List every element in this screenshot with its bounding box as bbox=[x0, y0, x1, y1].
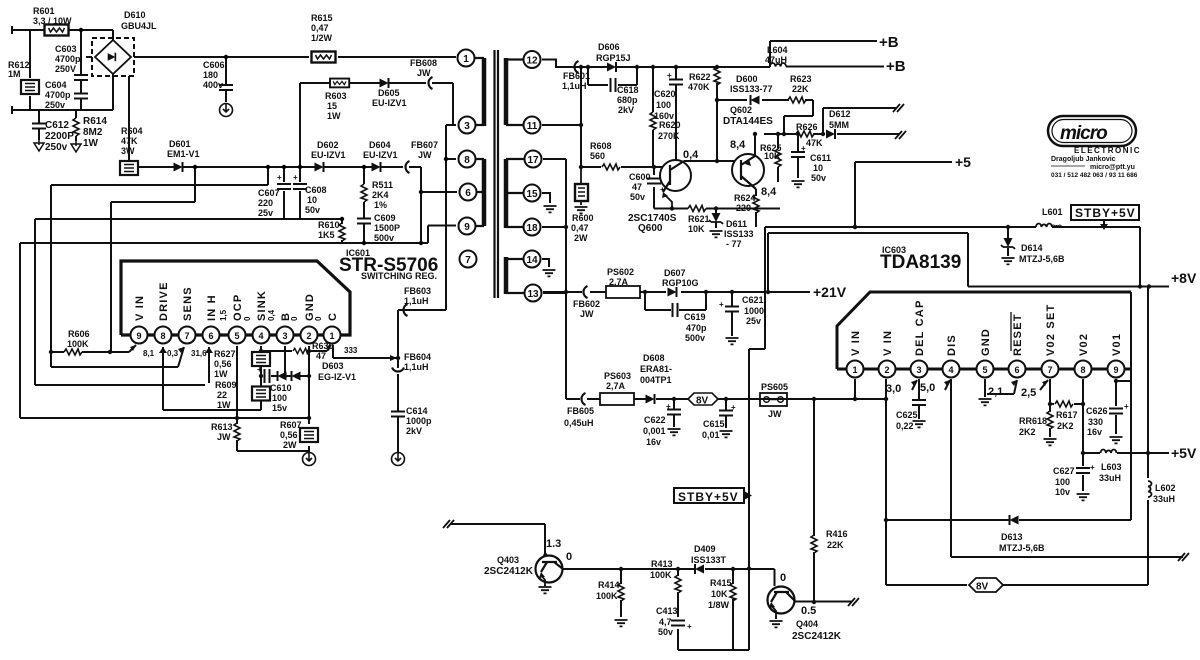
svg-text:1: 1 bbox=[329, 331, 334, 341]
svg-text:V01: V01 bbox=[1111, 333, 1123, 356]
svg-text:8,4: 8,4 bbox=[730, 139, 746, 151]
svg-text:2,7A: 2,7A bbox=[606, 381, 626, 391]
svg-text:1,1uH: 1,1uH bbox=[404, 362, 429, 372]
svg-text:R601: R601 bbox=[33, 6, 55, 16]
svg-text:D606: D606 bbox=[598, 42, 620, 52]
svg-text:500v: 500v bbox=[374, 233, 394, 243]
svg-text:0,4: 0,4 bbox=[267, 309, 276, 321]
svg-text:C607: C607 bbox=[258, 188, 280, 198]
svg-text:3: 3 bbox=[282, 331, 287, 341]
svg-text:10K: 10K bbox=[688, 224, 705, 234]
svg-text:R603: R603 bbox=[325, 91, 347, 101]
svg-text:C606: C606 bbox=[203, 60, 225, 70]
svg-text:DIS: DIS bbox=[946, 334, 958, 356]
svg-text:R627: R627 bbox=[214, 349, 236, 359]
svg-text:8,1: 8,1 bbox=[143, 349, 155, 358]
svg-text:GND: GND bbox=[980, 328, 992, 356]
svg-text:MTZJ-5,6B: MTZJ-5,6B bbox=[1019, 254, 1065, 264]
svg-text:100: 100 bbox=[272, 393, 287, 403]
svg-text:R622: R622 bbox=[689, 72, 711, 82]
svg-text:9: 9 bbox=[464, 222, 470, 233]
svg-text:D604: D604 bbox=[369, 140, 391, 150]
svg-text:+B: +B bbox=[886, 58, 906, 75]
svg-text:FB607: FB607 bbox=[411, 140, 438, 150]
svg-text:1%: 1% bbox=[374, 200, 387, 210]
svg-text:EU-IZV1: EU-IZV1 bbox=[311, 150, 346, 160]
svg-text:10: 10 bbox=[307, 195, 317, 205]
svg-text:16v: 16v bbox=[1087, 427, 1102, 437]
svg-text:1,1uH: 1,1uH bbox=[562, 81, 587, 91]
svg-text:D607: D607 bbox=[664, 268, 686, 278]
svg-text:ERA81-: ERA81- bbox=[640, 364, 672, 374]
svg-text:5: 5 bbox=[234, 331, 239, 341]
svg-text:+: + bbox=[666, 402, 671, 411]
svg-text:470K: 470K bbox=[688, 82, 710, 92]
svg-text:DEL CAP: DEL CAP bbox=[914, 300, 926, 356]
svg-text:4,7: 4,7 bbox=[659, 617, 672, 627]
svg-text:Q602: Q602 bbox=[730, 105, 752, 115]
svg-text:8,4: 8,4 bbox=[761, 186, 777, 198]
svg-text:15: 15 bbox=[526, 189, 538, 200]
svg-text:22: 22 bbox=[217, 390, 227, 400]
svg-text:D602: D602 bbox=[317, 140, 339, 150]
svg-text:C600: C600 bbox=[629, 172, 651, 182]
svg-text:EM1-V1: EM1-V1 bbox=[167, 149, 200, 159]
svg-text:L601: L601 bbox=[1042, 207, 1063, 217]
svg-text:250V: 250V bbox=[55, 64, 76, 74]
svg-text:R617: R617 bbox=[1056, 410, 1078, 420]
svg-text:C413: C413 bbox=[656, 606, 678, 616]
svg-text:3: 3 bbox=[916, 365, 921, 375]
svg-text:16v: 16v bbox=[646, 437, 661, 447]
svg-text:10v: 10v bbox=[1055, 487, 1070, 497]
svg-text:IN H: IN H bbox=[206, 294, 218, 321]
svg-text:C603: C603 bbox=[55, 44, 77, 54]
svg-text:L603: L603 bbox=[1101, 462, 1122, 472]
svg-text:C614: C614 bbox=[406, 406, 428, 416]
svg-text:C609: C609 bbox=[374, 213, 396, 223]
svg-text:V02 SET: V02 SET bbox=[1045, 304, 1057, 356]
svg-text:100K: 100K bbox=[67, 339, 89, 349]
svg-text:SWITCHING REG.: SWITCHING REG. bbox=[361, 271, 437, 281]
svg-text:+5V: +5V bbox=[1171, 445, 1197, 461]
svg-text:500v: 500v bbox=[685, 333, 705, 343]
svg-text:2K4: 2K4 bbox=[372, 190, 389, 200]
svg-text:1: 1 bbox=[852, 365, 857, 375]
svg-text:R511: R511 bbox=[372, 180, 393, 190]
svg-text:D611: D611 bbox=[726, 219, 747, 229]
svg-text:18: 18 bbox=[526, 223, 538, 234]
svg-text:1/2W: 1/2W bbox=[311, 33, 333, 43]
svg-text:0: 0 bbox=[243, 316, 252, 321]
svg-text:1W: 1W bbox=[327, 111, 341, 121]
svg-text:8V: 8V bbox=[696, 396, 709, 407]
svg-text:Dragoljub Jankovic: Dragoljub Jankovic bbox=[1051, 156, 1116, 163]
svg-text:11: 11 bbox=[527, 121, 538, 132]
svg-text:ELECTRONIC: ELECTRONIC bbox=[1074, 146, 1141, 155]
svg-text:2kV: 2kV bbox=[406, 426, 422, 436]
svg-text:R614: R614 bbox=[83, 116, 107, 127]
svg-text:C608: C608 bbox=[305, 185, 327, 195]
svg-text:MTZJ-5,6B: MTZJ-5,6B bbox=[999, 543, 1045, 553]
svg-text:ISS133-77: ISS133-77 bbox=[730, 84, 773, 94]
svg-text:R620: R620 bbox=[659, 120, 681, 130]
svg-text:L604: L604 bbox=[767, 45, 788, 55]
svg-text:V IN: V IN bbox=[882, 330, 894, 356]
svg-text:C621: C621 bbox=[742, 295, 764, 305]
svg-text:1000p: 1000p bbox=[406, 416, 432, 426]
svg-text:10K: 10K bbox=[764, 151, 781, 161]
svg-text:JW: JW bbox=[417, 68, 431, 78]
svg-text:50v: 50v bbox=[630, 192, 645, 202]
svg-text:D601: D601 bbox=[169, 139, 191, 149]
svg-text:R608: R608 bbox=[590, 141, 612, 151]
svg-text:R610: R610 bbox=[318, 220, 340, 230]
svg-text:+: + bbox=[731, 403, 736, 412]
svg-text:2: 2 bbox=[884, 365, 889, 375]
svg-text:D612: D612 bbox=[829, 109, 851, 119]
svg-text:D600: D600 bbox=[736, 74, 758, 84]
svg-text:4700p: 4700p bbox=[45, 90, 71, 100]
svg-text:+: + bbox=[719, 300, 724, 309]
svg-text:12: 12 bbox=[526, 56, 538, 67]
svg-text:Q403: Q403 bbox=[497, 555, 519, 565]
svg-text:100: 100 bbox=[656, 100, 671, 110]
svg-text:R613: R613 bbox=[211, 422, 233, 432]
svg-text:JW: JW bbox=[768, 409, 782, 419]
svg-text:5,0: 5,0 bbox=[920, 382, 935, 394]
svg-text:STBY+5V: STBY+5V bbox=[1075, 206, 1136, 220]
svg-text:D605: D605 bbox=[378, 88, 400, 98]
svg-text:C627: C627 bbox=[1053, 466, 1075, 476]
svg-text:D608: D608 bbox=[643, 353, 665, 363]
svg-text:270K: 270K bbox=[658, 131, 680, 141]
svg-text:micro@ptt.yu: micro@ptt.yu bbox=[1090, 164, 1135, 171]
svg-text:micro: micro bbox=[1060, 123, 1107, 144]
svg-text:C626: C626 bbox=[1086, 406, 1108, 416]
svg-text:333: 333 bbox=[344, 346, 358, 355]
svg-text:22K: 22K bbox=[827, 540, 844, 550]
svg-text:C615: C615 bbox=[703, 419, 725, 429]
svg-text:14: 14 bbox=[526, 255, 538, 266]
svg-text:FB603: FB603 bbox=[404, 286, 431, 296]
svg-text:0,001: 0,001 bbox=[643, 426, 666, 436]
svg-text:JW: JW bbox=[580, 309, 594, 319]
svg-text:4: 4 bbox=[948, 365, 953, 375]
svg-text:+: + bbox=[1124, 402, 1129, 411]
svg-text:+: + bbox=[687, 622, 692, 631]
svg-text:47: 47 bbox=[316, 351, 326, 361]
svg-text:0: 0 bbox=[290, 316, 299, 321]
svg-text:6: 6 bbox=[465, 188, 471, 199]
svg-text:7: 7 bbox=[184, 331, 189, 341]
svg-text:D409: D409 bbox=[694, 544, 716, 554]
svg-text:100K: 100K bbox=[650, 570, 672, 580]
svg-text:220: 220 bbox=[258, 198, 273, 208]
svg-text:+: + bbox=[277, 173, 282, 182]
svg-text:V02: V02 bbox=[1078, 333, 1090, 356]
svg-text:C610: C610 bbox=[270, 383, 292, 393]
svg-text:25v: 25v bbox=[746, 316, 761, 326]
svg-text:R623: R623 bbox=[790, 74, 812, 84]
svg-text:SENS: SENS bbox=[182, 286, 194, 321]
svg-text:0,22: 0,22 bbox=[896, 421, 914, 431]
svg-text:9: 9 bbox=[136, 331, 141, 341]
svg-text:6: 6 bbox=[208, 331, 213, 341]
svg-text:L602: L602 bbox=[1155, 483, 1176, 493]
svg-text:2kV: 2kV bbox=[618, 105, 634, 115]
svg-text:R600: R600 bbox=[572, 213, 594, 223]
svg-text:0,47: 0,47 bbox=[571, 223, 589, 233]
svg-text:D610: D610 bbox=[124, 10, 146, 20]
svg-text:22K: 22K bbox=[792, 84, 809, 94]
svg-text:R621: R621 bbox=[688, 214, 710, 224]
svg-text:47: 47 bbox=[632, 182, 642, 192]
svg-text:33uH: 33uH bbox=[1153, 494, 1175, 504]
svg-text:470p: 470p bbox=[686, 323, 707, 333]
svg-text:1,5: 1,5 bbox=[219, 309, 228, 321]
svg-text:2: 2 bbox=[306, 331, 311, 341]
svg-text:3,0: 3,0 bbox=[886, 383, 901, 395]
svg-text:0,56: 0,56 bbox=[280, 430, 298, 440]
svg-text:Q404: Q404 bbox=[796, 619, 818, 629]
svg-text:100K: 100K bbox=[596, 591, 618, 601]
svg-text:+: + bbox=[257, 365, 262, 374]
svg-text:47uH: 47uH bbox=[765, 55, 787, 65]
svg-text:+21V: +21V bbox=[813, 284, 847, 300]
svg-text:R630: R630 bbox=[312, 341, 334, 351]
svg-text:2SC2412K: 2SC2412K bbox=[792, 631, 842, 642]
svg-text:2W: 2W bbox=[574, 233, 588, 243]
svg-text:+5: +5 bbox=[955, 154, 971, 170]
svg-text:3: 3 bbox=[464, 121, 470, 132]
svg-text:5MM: 5MM bbox=[829, 120, 849, 130]
svg-text:PS603: PS603 bbox=[604, 371, 631, 381]
svg-text:0: 0 bbox=[780, 572, 786, 584]
svg-text:1: 1 bbox=[463, 54, 469, 65]
svg-text:1W: 1W bbox=[83, 138, 99, 149]
svg-text:R615: R615 bbox=[311, 13, 333, 23]
svg-text:2,7A: 2,7A bbox=[609, 277, 629, 287]
svg-text:C: C bbox=[327, 312, 339, 321]
svg-text:9: 9 bbox=[1113, 365, 1118, 375]
svg-text:15v: 15v bbox=[272, 403, 287, 413]
svg-text:STBY+5V: STBY+5V bbox=[678, 490, 739, 504]
svg-text:D613: D613 bbox=[1001, 532, 1023, 542]
svg-text:1500P: 1500P bbox=[374, 223, 400, 233]
svg-text:2K2: 2K2 bbox=[1019, 427, 1036, 437]
svg-text:8M2: 8M2 bbox=[83, 127, 103, 138]
svg-text:ISS133T: ISS133T bbox=[691, 555, 727, 565]
svg-text:1000: 1000 bbox=[744, 306, 764, 316]
svg-text:4700p: 4700p bbox=[55, 54, 81, 64]
svg-text:7: 7 bbox=[1047, 365, 1052, 375]
svg-text:1K5: 1K5 bbox=[318, 230, 335, 240]
svg-text:1,1uH: 1,1uH bbox=[404, 296, 429, 306]
svg-text:2200P: 2200P bbox=[45, 131, 74, 142]
svg-text:0,01: 0,01 bbox=[702, 430, 720, 440]
svg-text:0,4: 0,4 bbox=[683, 149, 699, 161]
svg-text:15: 15 bbox=[327, 101, 337, 111]
svg-text:R606: R606 bbox=[68, 329, 90, 339]
svg-text:RGP15J: RGP15J bbox=[596, 53, 631, 63]
svg-text:C622: C622 bbox=[644, 415, 666, 425]
svg-text:C619: C619 bbox=[684, 312, 706, 322]
svg-text:+B: +B bbox=[879, 34, 899, 51]
svg-text:C611: C611 bbox=[810, 153, 831, 163]
svg-text:3W: 3W bbox=[121, 146, 135, 156]
svg-text:FB605: FB605 bbox=[567, 406, 594, 416]
svg-text:EG-IZ-V1: EG-IZ-V1 bbox=[318, 372, 356, 382]
svg-text:FB608: FB608 bbox=[410, 58, 437, 68]
svg-text:ISS133: ISS133 bbox=[724, 229, 754, 239]
svg-text:031 / 512 482 063 / 93 11 6: 031 / 512 482 063 / 93 11 686 bbox=[1051, 172, 1138, 179]
svg-text:JW: JW bbox=[418, 150, 432, 160]
svg-text:330: 330 bbox=[1088, 417, 1103, 427]
svg-text:JW: JW bbox=[217, 432, 231, 442]
svg-text:5: 5 bbox=[982, 365, 987, 375]
svg-text:6: 6 bbox=[1014, 365, 1019, 375]
svg-text:31,6: 31,6 bbox=[191, 349, 207, 358]
svg-text:2K2: 2K2 bbox=[1057, 421, 1074, 431]
svg-text:R604: R604 bbox=[121, 126, 143, 136]
svg-text:R413: R413 bbox=[651, 559, 673, 569]
svg-text:0,56: 0,56 bbox=[214, 359, 232, 369]
svg-text:220: 220 bbox=[736, 203, 751, 213]
svg-text:33uH: 33uH bbox=[1099, 473, 1121, 483]
svg-text:R609: R609 bbox=[215, 380, 237, 390]
svg-text:1W: 1W bbox=[217, 400, 231, 410]
svg-text:1M: 1M bbox=[8, 69, 21, 79]
svg-text:8: 8 bbox=[160, 331, 165, 341]
svg-text:1.3: 1.3 bbox=[546, 538, 561, 550]
svg-text:V IN: V IN bbox=[850, 330, 862, 356]
svg-text:2,5: 2,5 bbox=[1021, 387, 1036, 399]
svg-text:0,47: 0,47 bbox=[311, 23, 329, 33]
svg-text:TDA8139: TDA8139 bbox=[880, 252, 961, 273]
svg-text:C604: C604 bbox=[45, 80, 67, 90]
svg-text:EU-IZV1: EU-IZV1 bbox=[363, 150, 398, 160]
svg-text:2SC2412K: 2SC2412K bbox=[484, 566, 534, 577]
svg-text:D614: D614 bbox=[1021, 243, 1043, 253]
svg-text:PS605: PS605 bbox=[761, 382, 788, 392]
svg-text:DRIVE: DRIVE bbox=[158, 281, 170, 321]
svg-text:47K: 47K bbox=[806, 138, 823, 148]
svg-text:C618: C618 bbox=[617, 85, 639, 95]
svg-text:PS602: PS602 bbox=[607, 267, 634, 277]
svg-text:R414: R414 bbox=[598, 580, 620, 590]
svg-text:10K: 10K bbox=[711, 589, 728, 599]
svg-text:17: 17 bbox=[527, 155, 539, 166]
svg-text:680p: 680p bbox=[617, 95, 638, 105]
svg-text:V IN: V IN bbox=[134, 295, 146, 321]
svg-text:R626: R626 bbox=[796, 122, 818, 132]
svg-text:GBU4JL: GBU4JL bbox=[121, 21, 157, 31]
svg-text:7: 7 bbox=[465, 255, 471, 266]
svg-text:1W: 1W bbox=[214, 369, 228, 379]
svg-text:+: + bbox=[293, 173, 298, 182]
svg-text:Q600: Q600 bbox=[638, 223, 663, 234]
svg-text:50v: 50v bbox=[305, 205, 320, 215]
svg-text:2,1: 2,1 bbox=[988, 386, 1003, 398]
svg-text:8V: 8V bbox=[976, 582, 989, 593]
svg-text:EU-IZV1: EU-IZV1 bbox=[372, 98, 407, 108]
svg-text:560: 560 bbox=[590, 151, 605, 161]
svg-text:250v: 250v bbox=[45, 142, 68, 153]
svg-text:250v: 250v bbox=[45, 100, 65, 110]
svg-text:RESET: RESET bbox=[1012, 313, 1024, 356]
svg-text:FB601: FB601 bbox=[563, 71, 590, 81]
svg-text:2W: 2W bbox=[283, 440, 297, 450]
svg-text:0,45uH: 0,45uH bbox=[564, 418, 594, 428]
svg-text:004TP1: 004TP1 bbox=[640, 375, 672, 385]
svg-text:100: 100 bbox=[1055, 477, 1070, 487]
svg-text:R624: R624 bbox=[734, 193, 756, 203]
svg-text:0.5: 0.5 bbox=[801, 605, 816, 617]
svg-text:RR618: RR618 bbox=[1019, 416, 1047, 426]
svg-text:+: + bbox=[1090, 463, 1095, 472]
svg-text:50v: 50v bbox=[658, 627, 673, 637]
svg-text:C612: C612 bbox=[45, 120, 69, 131]
svg-text:25v: 25v bbox=[258, 208, 273, 218]
svg-text:8: 8 bbox=[464, 155, 470, 166]
svg-text:C625: C625 bbox=[896, 410, 918, 420]
svg-text:R415: R415 bbox=[710, 578, 732, 588]
svg-text:1/8W: 1/8W bbox=[708, 600, 730, 610]
svg-text:50v: 50v bbox=[811, 173, 826, 183]
svg-text:FB602: FB602 bbox=[573, 299, 600, 309]
svg-text:8: 8 bbox=[1080, 365, 1085, 375]
svg-text:R607: R607 bbox=[280, 420, 302, 430]
svg-text:+8V: +8V bbox=[1171, 270, 1197, 286]
svg-text:D603: D603 bbox=[322, 361, 344, 371]
svg-text:47K: 47K bbox=[121, 136, 138, 146]
svg-text:4: 4 bbox=[258, 331, 263, 341]
svg-text:10: 10 bbox=[813, 163, 823, 173]
svg-text:DTA144ES: DTA144ES bbox=[723, 116, 773, 127]
svg-text:- 77: - 77 bbox=[726, 239, 742, 249]
svg-text:RGP10G: RGP10G bbox=[662, 278, 699, 288]
svg-text:0,3: 0,3 bbox=[167, 349, 179, 358]
svg-text:FB604: FB604 bbox=[404, 352, 431, 362]
svg-text:C620: C620 bbox=[654, 89, 676, 99]
svg-text:+: + bbox=[667, 71, 672, 80]
svg-text:13: 13 bbox=[527, 289, 539, 300]
svg-text:180: 180 bbox=[203, 70, 218, 80]
svg-text:0: 0 bbox=[566, 551, 572, 563]
svg-text:0: 0 bbox=[314, 316, 323, 321]
svg-text:R416: R416 bbox=[826, 529, 848, 539]
